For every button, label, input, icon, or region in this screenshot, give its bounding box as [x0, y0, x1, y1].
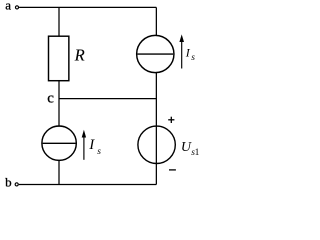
svg-text:a: a — [5, 0, 11, 12]
svg-text:s: s — [191, 53, 195, 63]
svg-text:s: s — [97, 147, 101, 157]
svg-text:b: b — [5, 175, 12, 190]
svg-text:1: 1 — [195, 148, 200, 158]
svg-text:R: R — [74, 46, 85, 65]
svg-text:I: I — [88, 137, 95, 153]
svg-text:c: c — [47, 91, 54, 107]
